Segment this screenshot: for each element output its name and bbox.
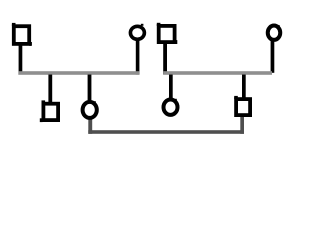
- consanguinity elbow: horizontal bottom line: [88, 130, 244, 134]
- circle I-2 (top middle-left female): [130, 24, 144, 40]
- wire stem from right line down to child circle II-3: [169, 75, 173, 100]
- circle I-4 (top-right female): [268, 25, 281, 40]
- wire stem from left line down to child circle II-2: [88, 75, 92, 102]
- consanguinity elbow: vertical up to square II-4: [240, 117, 244, 134]
- square II-4 (right child male): [234, 96, 250, 115]
- square I-3 (top middle-right male): [157, 23, 178, 44]
- wire stem from square I-1 down to left marriage line: [19, 45, 23, 75]
- wire stem from circle I-4 down to right marriage line: [271, 41, 275, 73]
- left marriage line (gray): [18, 71, 139, 75]
- right marriage line (gray): [163, 71, 272, 75]
- square II-1 (left child male): [40, 100, 58, 122]
- wire stem from right line down to child square II-4: [242, 75, 246, 99]
- square I-1 (top-left male): [12, 23, 32, 46]
- consanguinity elbow: vertical from circle II-2 down: [88, 118, 92, 134]
- wire stem from circle I-2 down to left marriage line: [136, 40, 140, 75]
- circle II-3 (right child female): [164, 99, 178, 115]
- wire stem from left line down to child square II-1: [48, 75, 52, 103]
- wire stem from square I-3 down to right marriage line: [163, 43, 167, 75]
- circle II-2 (left child female): [83, 101, 97, 118]
